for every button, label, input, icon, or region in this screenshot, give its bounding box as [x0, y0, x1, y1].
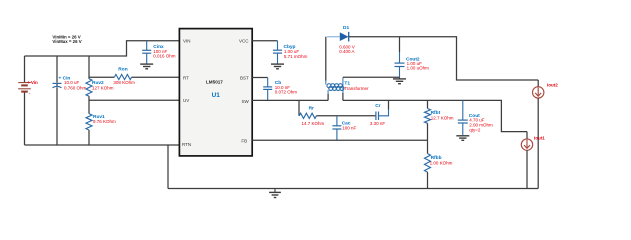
diode D1	[327, 36, 340, 38]
svg-text:0.072 Ohm: 0.072 Ohm	[275, 89, 298, 94]
wire: Rr to Cr junction	[316, 115, 375, 117]
capacitor Cac	[336, 116, 338, 141]
ground (Cout)	[456, 136, 469, 141]
wire: Ruv divider column	[88, 56, 90, 145]
wire: VCC to Cbyp	[252, 40, 277, 42]
svg-text:Transformer: Transformer	[344, 86, 369, 91]
wire: D1 cathode to Iout2	[349, 37, 539, 80]
ground (Cinx)	[140, 64, 153, 69]
svg-text:1.00 KOhm: 1.00 KOhm	[430, 161, 453, 166]
svg-text:127 KOhm: 127 KOhm	[92, 86, 114, 91]
capacitor Cin (polarized)	[53, 83, 62, 87]
svg-text:Iout2: Iout2	[547, 83, 558, 88]
wire: SW net to transformer	[252, 99, 328, 101]
svg-text:U1: U1	[212, 92, 221, 99]
resistor Rfbb	[427, 140, 429, 153]
capacitor Cinx	[146, 41, 148, 64]
wire: Vout1 rail from transformer to step	[343, 100, 527, 131]
svg-text:Cr: Cr	[375, 103, 380, 109]
svg-text:BST: BST	[240, 75, 249, 80]
wire: BST to Cb	[252, 77, 268, 79]
svg-text:VIN: VIN	[183, 38, 191, 43]
wire: UV net	[89, 99, 179, 101]
svg-text:14.7 KOhm: 14.7 KOhm	[302, 121, 325, 126]
svg-text:100 nF: 100 nF	[342, 125, 356, 130]
svg-text:VCC: VCC	[239, 38, 249, 43]
svg-text:10.0 uF: 10.0 uF	[64, 80, 80, 85]
svg-text:0.760 Ohm: 0.760 Ohm	[64, 85, 87, 90]
svg-text:UV: UV	[183, 98, 189, 103]
svg-text:3.30 nF: 3.30 nF	[370, 121, 386, 126]
svg-text:Rr: Rr	[309, 106, 314, 112]
svg-text:SW: SW	[242, 99, 250, 104]
wire: Cin leads	[56, 56, 58, 145]
wire: battery leads	[24, 56, 26, 145]
resistor Ruv2	[86, 79, 92, 97]
svg-text:Ron: Ron	[118, 67, 127, 73]
svg-text:+ Vin: + Vin	[27, 80, 38, 85]
wire: FB net	[252, 139, 427, 141]
transformer T1	[325, 37, 327, 81]
current source Iout1	[526, 132, 528, 140]
svg-text:-: -	[29, 91, 31, 97]
capacitor Cout2	[399, 37, 401, 52]
svg-text:9.76 KOhm: 9.76 KOhm	[93, 119, 116, 124]
wire: Rr tap stub	[298, 100, 300, 115]
resistor Rr	[299, 113, 316, 118]
op-amp U1 (LM5017 regulator box)	[179, 29, 252, 156]
svg-text:308 KOhm: 308 KOhm	[113, 80, 135, 85]
svg-text:RTN: RTN	[182, 142, 191, 147]
wire: RTN rail	[25, 144, 180, 146]
wire: Ron to RT pin	[89, 76, 179, 78]
svg-text:FB: FB	[241, 138, 247, 143]
resistor Ruv1	[86, 114, 92, 130]
svg-text:Iout1: Iout1	[534, 135, 545, 140]
svg-text:5.71 mOhm: 5.71 mOhm	[284, 54, 308, 59]
svg-text:VinMax = 26 V: VinMax = 26 V	[52, 39, 81, 44]
capacitor Cr	[376, 112, 379, 121]
capacitor Cout	[462, 100, 464, 135]
battery Vin	[18, 83, 31, 92]
svg-text:0.016 Ohm: 0.016 Ohm	[153, 54, 176, 59]
svg-text:12.7 KOhm: 12.7 KOhm	[431, 116, 454, 121]
current source Iout2	[537, 80, 539, 87]
resistor Ron	[115, 74, 132, 79]
svg-text:1.00 uOhm: 1.00 uOhm	[407, 66, 430, 71]
ground (system)	[269, 189, 281, 198]
svg-text:RT: RT	[183, 75, 189, 80]
svg-text:LM5017: LM5017	[206, 80, 223, 85]
ground (Cout2 / secondary return)	[393, 77, 406, 83]
wire: RTN drop and bottom ground rail	[168, 145, 538, 189]
wire: secondary return to Cout2 junction	[343, 76, 400, 78]
svg-text:D1: D1	[343, 25, 349, 31]
wire: input top rail from Vin to jog up to VIN pin	[25, 41, 180, 56]
capacitor Cb	[267, 78, 269, 101]
resistor Rfbt	[427, 100, 429, 108]
ground (Cbyp)	[271, 64, 284, 69]
capacitor Cbyp	[277, 41, 279, 64]
svg-text:0.400 A: 0.400 A	[339, 49, 354, 54]
svg-text:qty=2: qty=2	[469, 127, 481, 132]
